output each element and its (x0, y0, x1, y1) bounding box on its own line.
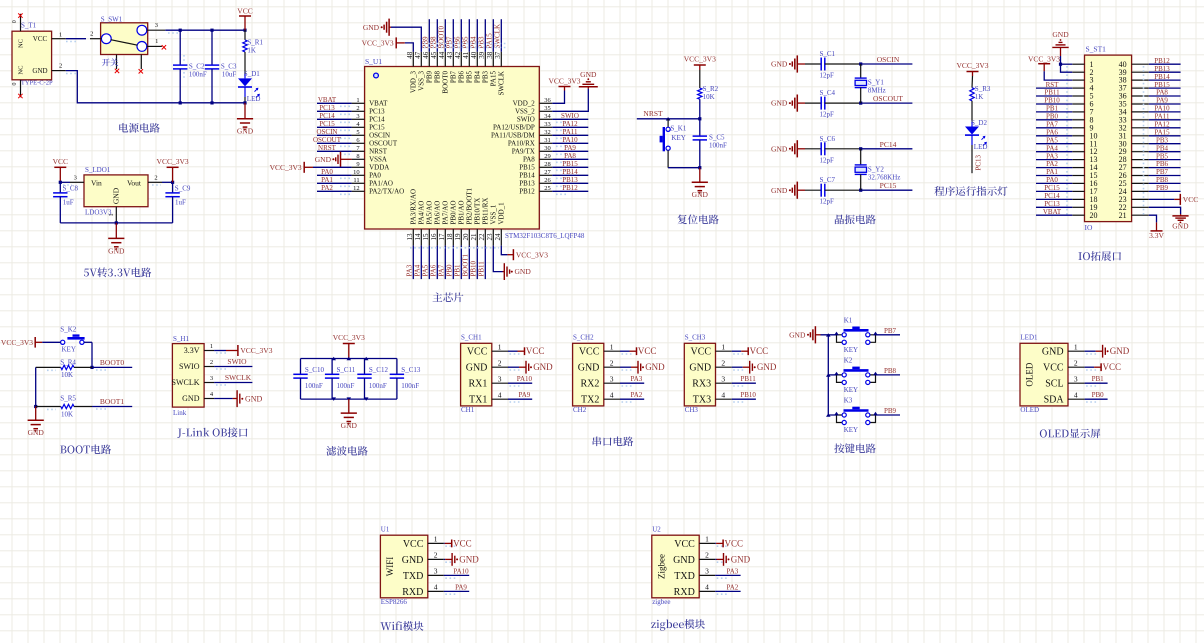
svg-text:PC14: PC14 (880, 140, 897, 149)
net label PA6 (1046, 128, 1058, 136)
wire ST1 pin34 (1149, 111, 1181, 113)
LED S_D2 (965, 119, 987, 173)
push button K1 KEY (834, 317, 878, 354)
svg-text:Vout: Vout (127, 178, 142, 187)
net label PB7 (446, 36, 454, 49)
crystal S_Y2 32.768KHz (855, 149, 901, 190)
svg-text:S_C4: S_C4 (820, 89, 836, 97)
svg-text:44: 44 (438, 51, 446, 59)
svg-text:4: 4 (721, 390, 725, 399)
svg-text:K3: K3 (844, 397, 853, 405)
svg-text:PB6: PB6 (458, 71, 466, 84)
svg-text:S_C6: S_C6 (820, 135, 836, 143)
wire S_CH1 pin4 (508, 399, 532, 402)
svg-text:GND: GND (363, 23, 380, 32)
no-connect X on S_T1 pin B1 (18, 94, 22, 98)
module U2 (652, 526, 715, 607)
svg-text:VCC: VCC (750, 346, 769, 356)
net label PB15 (562, 160, 578, 168)
svg-text:PB15: PB15 (519, 164, 535, 172)
svg-text:PA3: PA3 (630, 375, 642, 383)
svg-text:GND: GND (459, 554, 479, 564)
svg-text:VDD_2: VDD_2 (513, 100, 536, 108)
svg-text:PA10: PA10 (517, 375, 533, 383)
net label PB1 (454, 264, 462, 277)
net label PA7 (1046, 121, 1058, 129)
net label PA11 (562, 128, 578, 136)
LED S_D1 (238, 70, 260, 103)
junction filter C11 bottom (331, 397, 336, 401)
svg-text:2: 2 (498, 358, 502, 367)
caption zigbee模块 (651, 619, 705, 631)
wire U1 pin44 (444, 19, 446, 52)
net label PA7 (438, 264, 446, 276)
net label PC15 (319, 120, 335, 128)
net label PA3 (406, 264, 414, 276)
junction NRST-key (666, 117, 671, 121)
svg-text:S_K2: S_K2 (60, 326, 76, 334)
svg-text:10K: 10K (61, 410, 73, 418)
svg-text:PB9: PB9 (426, 71, 434, 84)
svg-text:PB5: PB5 (1156, 152, 1169, 160)
net label PB4 (470, 36, 478, 49)
wire S_CH1 pin1 (508, 351, 522, 354)
wire U1 pin7 (317, 151, 352, 154)
svg-text:10K: 10K (61, 371, 73, 379)
net label PA9 at S_CH1 (518, 391, 530, 399)
svg-text:8: 8 (356, 153, 359, 160)
power VCC_3V3 at U1 VDD_1 pin24 (501, 246, 548, 261)
junction keys bus K2 (826, 373, 831, 376)
svg-text:GND: GND (757, 362, 777, 372)
svg-text:TX1: TX1 (469, 395, 487, 406)
svg-text:10K: 10K (703, 93, 715, 101)
wire U1 pin11 (317, 183, 352, 186)
net label PB0 (446, 264, 454, 277)
wire H1 pin1 VCC_3V3 (214, 351, 226, 354)
wire Vout to C9 (152, 182, 173, 185)
net label PC13 indicator (974, 154, 982, 170)
ground GND at S_CH1 (519, 361, 553, 374)
wire ST1 pin22 to GND (1149, 207, 1181, 214)
svg-text:PB11: PB11 (740, 375, 756, 383)
wire U1 pin6 (317, 143, 352, 146)
svg-text:PA6/AO: PA6/AO (434, 201, 442, 225)
svg-text:PA2: PA2 (321, 184, 333, 192)
svg-text:zigbee: zigbee (652, 598, 670, 606)
svg-text:VCC: VCC (691, 347, 712, 358)
wire PC15 net (861, 189, 913, 191)
ground GND S_C1 (771, 55, 805, 72)
net label PB10 (1044, 97, 1060, 105)
switch S_SW1 (90, 16, 165, 69)
ground GND at LED1 (1096, 345, 1130, 358)
svg-text:PB15: PB15 (1154, 81, 1170, 89)
svg-text:2: 2 (705, 551, 709, 560)
svg-text:42: 42 (454, 51, 462, 59)
svg-text:GND: GND (515, 267, 532, 276)
net label PB6 (454, 36, 462, 49)
net label PA0 (1046, 176, 1058, 184)
wire U1 pin5 (317, 135, 352, 138)
svg-text:1: 1 (1074, 342, 1078, 351)
svg-text:8MHz: 8MHz (868, 87, 886, 95)
dotted marks IO left (1067, 66, 1144, 215)
svg-text:PB0: PB0 (1092, 391, 1105, 399)
wire U1 pin10 (317, 175, 352, 178)
svg-text:OLED: OLED (1020, 406, 1039, 414)
svg-text:KEY: KEY (671, 134, 685, 142)
net label PB7 (884, 327, 897, 335)
net label PA10 (562, 136, 578, 144)
svg-text:VSS_3: VSS_3 (418, 71, 426, 91)
svg-text:S_C8: S_C8 (63, 184, 79, 192)
ground GND at U1 VSSA (315, 152, 352, 167)
power VCC_3V3 at U1 VDD_3 pin48 (362, 37, 414, 51)
resistor S_R2 10K (698, 70, 719, 119)
power VCC at LED1 (1094, 362, 1121, 372)
svg-text:100nF: 100nF (305, 382, 323, 390)
svg-text:OSCIN: OSCIN (316, 128, 337, 136)
svg-text:PB8: PB8 (1156, 176, 1169, 184)
svg-text:RXD: RXD (402, 587, 423, 598)
module S_CH2 (573, 334, 620, 415)
svg-text:PB8: PB8 (434, 71, 442, 84)
wire ST1 pin9 (1036, 127, 1072, 129)
svg-text:100nF: 100nF (369, 382, 387, 390)
svg-text:26: 26 (544, 177, 551, 184)
ground GND at U2 (717, 553, 751, 566)
wire U1 pin42 (460, 19, 462, 52)
svg-text:28: 28 (544, 161, 551, 168)
svg-text:1: 1 (155, 38, 158, 45)
svg-text:11: 11 (353, 177, 359, 184)
svg-text:S_D1: S_D1 (244, 70, 260, 78)
svg-text:VCC_3V3: VCC_3V3 (1028, 55, 1060, 64)
svg-text:PA15: PA15 (1154, 128, 1170, 136)
svg-text:LED1: LED1 (1020, 334, 1038, 342)
wire U1 pin31 (552, 143, 588, 146)
wire S_CH1 pin2 (508, 367, 522, 370)
svg-text:100nF: 100nF (401, 382, 419, 390)
wire U1 pin14 (420, 246, 422, 280)
svg-text:S_H1: S_H1 (173, 335, 189, 343)
svg-text:1uF: 1uF (175, 198, 186, 206)
svg-text:OSCOUT: OSCOUT (313, 136, 342, 144)
svg-text:S_CH1: S_CH1 (461, 334, 482, 342)
wire U1 pin33 (552, 127, 588, 130)
net label BOOT0 (438, 25, 446, 48)
svg-text:GND: GND (402, 555, 424, 566)
svg-text:2: 2 (434, 551, 438, 560)
wire U1 pin21 (476, 246, 478, 280)
wire U2 pin3 (715, 575, 740, 578)
wire ST1 pin7 (1036, 111, 1072, 113)
net label PA3 at S_CH2 (630, 375, 642, 383)
svg-text:S_R2: S_R2 (703, 85, 719, 93)
svg-text:U1: U1 (381, 526, 390, 534)
svg-text:PA10: PA10 (1154, 105, 1170, 113)
net label PB0 (1046, 113, 1059, 121)
svg-text:TXD: TXD (674, 571, 695, 582)
net label PB6 (1156, 160, 1169, 168)
net label VBAT (1043, 208, 1062, 216)
svg-text:GND: GND (771, 186, 788, 195)
svg-text:12pF: 12pF (820, 198, 835, 206)
svg-text:S_ST1: S_ST1 (1086, 45, 1107, 54)
svg-text:GND: GND (692, 190, 709, 199)
capacitor S_C12 100nF (357, 359, 388, 400)
wire U1 pin1 (317, 103, 352, 106)
svg-text:PB1/AO: PB1/AO (458, 200, 466, 224)
svg-text:1uF: 1uF (63, 198, 74, 206)
svg-text:19: 19 (454, 233, 462, 241)
net label NRST (643, 109, 663, 118)
net label PC14 (319, 112, 335, 120)
wire U1 pin4 (317, 127, 352, 130)
capacitor S_C6 12pF (805, 135, 861, 165)
svg-text:SWCLK: SWCLK (225, 373, 252, 382)
wire U1 pin27 (552, 175, 588, 178)
wire U1 pin28 (552, 167, 588, 170)
wire S_T1 pin2 to GND rail (66, 71, 245, 103)
svg-text:PA4: PA4 (1046, 144, 1058, 152)
wire S_CH3 pin2 (732, 367, 746, 370)
svg-text:GND: GND (466, 363, 488, 374)
wire ST1 pin17 (1036, 190, 1072, 192)
svg-text:BOOT1: BOOT1 (462, 253, 470, 276)
svg-text:GND: GND (578, 363, 600, 374)
wire U1 pin17 (444, 246, 446, 280)
svg-text:3: 3 (498, 374, 502, 383)
svg-text:VCC_3V3: VCC_3V3 (240, 346, 272, 355)
svg-text:S_C11: S_C11 (337, 366, 356, 374)
svg-text:1K: 1K (975, 93, 984, 101)
svg-text:40: 40 (470, 51, 478, 59)
net label PC13 (319, 104, 335, 112)
svg-text:VDD_3: VDD_3 (410, 71, 418, 94)
svg-text:1K: 1K (247, 46, 256, 54)
svg-text:48: 48 (406, 51, 414, 59)
svg-text:GND: GND (315, 155, 332, 164)
svg-text:12pF: 12pF (820, 72, 835, 80)
net label PB8 (884, 367, 897, 375)
svg-text:32.768KHz: 32.768KHz (868, 174, 900, 182)
push button K2 KEY (834, 357, 878, 394)
svg-text:PC13: PC13 (974, 154, 982, 170)
net label PB1 at LED1 (1092, 375, 1105, 383)
net label PA4 (414, 264, 422, 276)
svg-text:2: 2 (59, 62, 62, 69)
MCU S_U1 STM32F103C8T6 (352, 51, 585, 245)
svg-text:NC: NC (18, 65, 25, 74)
svg-text:VBAT: VBAT (369, 100, 388, 108)
svg-text:VCC_3V3: VCC_3V3 (548, 77, 580, 86)
push button K3 KEY (834, 397, 878, 434)
power VCC_3V3 reset (684, 55, 716, 71)
svg-text:36: 36 (544, 97, 551, 104)
no-connect X on S_SW1 lower pins (115, 69, 143, 74)
svg-text:4: 4 (434, 583, 438, 592)
wire ST1 pin13 (1036, 159, 1072, 161)
wire U2 pin2 (715, 559, 729, 562)
junction Vout-C9 (171, 181, 174, 184)
net label OSCIN (877, 55, 900, 64)
svg-text:RX1: RX1 (468, 379, 487, 390)
svg-text:GND: GND (32, 67, 47, 75)
net label PB15 (1154, 81, 1170, 89)
ground GND keys (789, 326, 820, 343)
svg-text:3: 3 (1074, 374, 1078, 383)
net label PA1 (1046, 168, 1058, 176)
wire U1 pin1 (444, 543, 458, 546)
wire ST1 pin6 (1036, 103, 1072, 105)
power VCC_3V3 indicator (956, 61, 988, 76)
net label BOOT1 (100, 397, 124, 406)
power VCC_3V3 BOOT (1, 337, 42, 348)
svg-text:S_CH3: S_CH3 (685, 334, 706, 342)
net label PA10 at U1 (453, 567, 469, 575)
wire S_CH3 pin3 (732, 383, 756, 386)
net label PA9 at U1 (455, 583, 467, 591)
junction rail-C3 (210, 29, 213, 32)
svg-text:S_Y2: S_Y2 (868, 166, 884, 174)
svg-text:IO: IO (1085, 223, 1093, 232)
svg-text:SWIO: SWIO (561, 112, 579, 120)
svg-text:S_Y1: S_Y1 (868, 79, 884, 87)
wire S_T1 pin1 to switch (66, 39, 86, 42)
wire U1 pin15 (428, 246, 430, 280)
ground GND S_C4 (771, 95, 805, 112)
net label PB3 (478, 36, 486, 49)
svg-text:GND: GND (645, 362, 665, 372)
net label VBAT (318, 96, 337, 104)
svg-text:PB11: PB11 (478, 261, 486, 277)
svg-text:S_CH2: S_CH2 (573, 334, 594, 342)
svg-text:KEY: KEY (844, 386, 858, 394)
svg-text:GND: GND (771, 144, 788, 153)
junction crystal PC14 (859, 147, 862, 150)
net label PC15 (880, 181, 897, 190)
svg-text:PB6: PB6 (454, 36, 462, 49)
svg-text:PB1: PB1 (1046, 105, 1059, 113)
caption BOOT电路 (60, 444, 111, 454)
wire U1 pin39 (484, 19, 486, 52)
svg-text:SWIO: SWIO (179, 362, 200, 371)
svg-text:PA4/AO: PA4/AO (418, 201, 426, 225)
svg-text:VBAT: VBAT (1043, 208, 1062, 216)
resistor S_R5 10K (36, 395, 92, 419)
svg-text:3: 3 (356, 113, 359, 120)
svg-text:GND: GND (112, 187, 121, 204)
svg-text:41: 41 (462, 51, 470, 59)
wire Vin to C8 (60, 182, 72, 185)
value 开关 for S_SW1 (102, 58, 118, 66)
svg-text:S_C3: S_C3 (221, 62, 237, 70)
power VCC_3V3 at U1 VDD_2 (548, 77, 580, 104)
caption 串口电路 (593, 436, 634, 446)
svg-text:GND: GND (182, 394, 200, 403)
wire U1 pin38 (492, 19, 494, 52)
net label RST (1046, 81, 1060, 89)
svg-text:VDDA: VDDA (369, 164, 389, 172)
caption 主芯片 (433, 292, 464, 302)
svg-text:VCC: VCC (1103, 362, 1122, 372)
svg-text:VCC: VCC (237, 7, 252, 16)
svg-text:PA10/RX: PA10/RX (508, 140, 535, 148)
no-connect X on S_SW1 pin1 (162, 45, 166, 49)
svg-text:VCC_3V3: VCC_3V3 (333, 333, 365, 342)
svg-text:3.3V: 3.3V (1149, 231, 1164, 240)
svg-text:0: 0 (12, 20, 18, 23)
wire U1 pin26 (552, 183, 588, 186)
svg-text:Zigbee: Zigbee (656, 554, 666, 579)
wire U1 pin18 (452, 246, 454, 280)
junction filter GND stem (347, 397, 352, 401)
svg-text:PA3/RX/AO: PA3/RX/AO (410, 189, 418, 225)
wire S_CH1 pin3 (508, 383, 532, 386)
connector S_H1 J-Link (172, 335, 215, 417)
junction LDO-GND (115, 221, 118, 224)
svg-text:PA10: PA10 (562, 136, 578, 144)
regulator S_LDO1 LDO3V3 (70, 166, 162, 223)
svg-text:3: 3 (210, 375, 213, 382)
power VCC at LDO input (53, 157, 68, 182)
svg-text:3: 3 (155, 22, 158, 29)
svg-text:GND: GND (1172, 221, 1189, 230)
ground GND at U1 VSS_2 (552, 70, 598, 111)
svg-text:2: 2 (90, 31, 93, 38)
svg-text:S_C2: S_C2 (189, 62, 205, 70)
caption 5V转3.3V电路 (84, 267, 151, 277)
net label PC13 (1044, 200, 1060, 208)
svg-text:100nF: 100nF (709, 142, 727, 150)
net label BOOT0 (100, 358, 124, 367)
wire ST1 pin25 (1149, 182, 1181, 184)
svg-text:LED: LED (247, 95, 261, 103)
svg-text:PB2/BOOT1: PB2/BOOT1 (466, 187, 474, 224)
svg-text:PA11: PA11 (1154, 113, 1170, 121)
module S_CH1 (461, 334, 508, 415)
wire filter top rail (301, 358, 397, 360)
caption 滤波电路 (326, 446, 367, 456)
net label OSCOUT (873, 94, 903, 103)
svg-text:S_C9: S_C9 (175, 184, 191, 192)
svg-text:PB8: PB8 (430, 36, 438, 49)
net label SWCLK (494, 24, 502, 49)
svg-text:GND: GND (689, 363, 711, 374)
ground GND LDO (108, 223, 125, 255)
svg-text:PA7/AO: PA7/AO (442, 201, 450, 225)
ground GND at H1 (233, 390, 263, 407)
svg-text:S_C10: S_C10 (305, 366, 325, 374)
svg-text:TXD: TXD (403, 571, 424, 582)
wire U1 pin25 (552, 191, 588, 194)
svg-text:PA1/AO: PA1/AO (369, 180, 393, 188)
wire U1 pin29 (552, 159, 588, 162)
net label PB14 (562, 168, 578, 176)
junction filter C12 bottom (364, 397, 369, 401)
wire ST1 pin27 (1149, 167, 1181, 169)
ground GND S_C7 (771, 182, 805, 199)
caption OLED显示屏 (1040, 429, 1100, 439)
wire ST1 pin10 (1036, 135, 1072, 137)
junction crystal OSCOUT (859, 102, 862, 105)
wire OSCIN net (861, 63, 913, 65)
svg-text:PB3: PB3 (478, 36, 486, 49)
ground GND reset (692, 168, 709, 200)
wire U1 pin30 (552, 151, 588, 154)
